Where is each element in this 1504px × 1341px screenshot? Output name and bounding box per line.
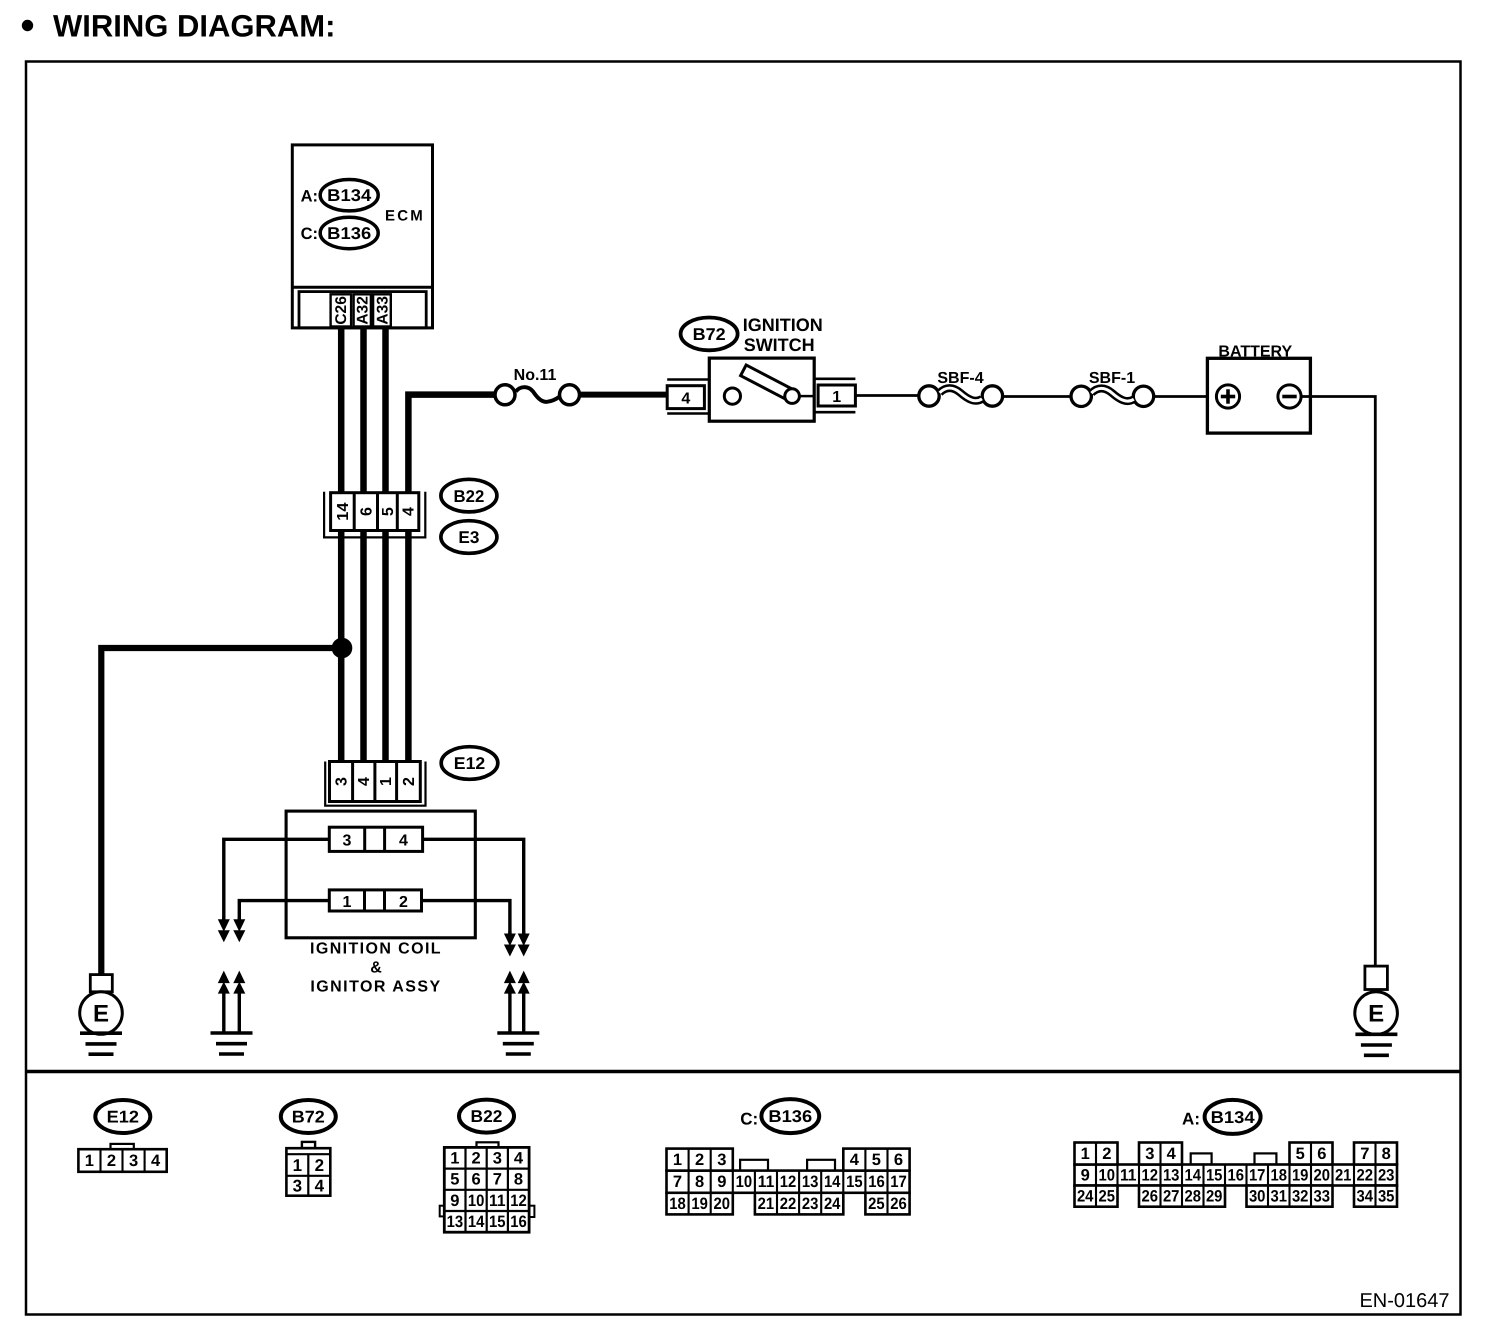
svg-text:26: 26 xyxy=(890,1195,907,1213)
svg-text:11: 11 xyxy=(1120,1167,1137,1185)
svg-text:B134: B134 xyxy=(1211,1108,1256,1127)
svg-text:B22: B22 xyxy=(471,1107,503,1126)
oval E12 (pinout view) xyxy=(95,1100,150,1133)
wire coil pin 4 to ground arrow xyxy=(423,839,524,934)
svg-text:23: 23 xyxy=(1378,1167,1395,1185)
svg-text:9: 9 xyxy=(717,1173,726,1191)
svg-text:10: 10 xyxy=(468,1192,485,1210)
svg-text:28: 28 xyxy=(1185,1188,1202,1206)
svg-text:12: 12 xyxy=(1142,1167,1159,1185)
svg-text:E: E xyxy=(93,1001,109,1028)
wire branch to left ground xyxy=(101,648,344,975)
connector ref oval C:B136 xyxy=(301,217,379,248)
ECM connector strip xyxy=(299,292,426,328)
connector A:B134 pinout xyxy=(1075,1143,1398,1207)
wire ECM C26 to E12 pin 3 xyxy=(338,327,345,764)
wire ignition switch to B22 pin 4 / E12 pin 2 xyxy=(408,395,494,764)
svg-text:4: 4 xyxy=(356,777,373,786)
svg-text:6: 6 xyxy=(472,1171,481,1189)
svg-text:16: 16 xyxy=(868,1173,885,1191)
svg-text:13: 13 xyxy=(1163,1167,1180,1185)
svg-text:9: 9 xyxy=(1081,1167,1090,1185)
svg-text:25: 25 xyxy=(1099,1188,1116,1206)
svg-text:WIRING DIAGRAM:: WIRING DIAGRAM: xyxy=(53,9,335,44)
junction node xyxy=(332,638,353,659)
ignition switch terminal 4 xyxy=(667,380,710,414)
svg-text:19: 19 xyxy=(691,1195,708,1213)
label IGNITION SWITCH xyxy=(743,315,823,355)
svg-text:6: 6 xyxy=(359,507,376,516)
oval B22 (pinout view) xyxy=(459,1100,514,1133)
svg-text:22: 22 xyxy=(780,1195,797,1213)
oval C:B136 (pinout view) xyxy=(740,1099,819,1133)
svg-text:32: 32 xyxy=(1292,1188,1309,1206)
ECM pin A32 xyxy=(354,294,372,326)
svg-text:3: 3 xyxy=(493,1150,502,1168)
svg-text:27: 27 xyxy=(1163,1188,1180,1206)
svg-text:24: 24 xyxy=(1077,1188,1094,1206)
svg-text:1: 1 xyxy=(293,1156,302,1175)
svg-text:E12: E12 xyxy=(454,754,485,773)
svg-text:A32: A32 xyxy=(355,296,372,325)
svg-text:15: 15 xyxy=(489,1213,506,1231)
svg-text:15: 15 xyxy=(1206,1167,1223,1185)
svg-text:B72: B72 xyxy=(693,325,726,344)
wire coil pin 3 to ground arrow xyxy=(224,839,329,920)
svg-text:3: 3 xyxy=(334,777,351,786)
svg-text:30: 30 xyxy=(1249,1188,1266,1206)
svg-text:17: 17 xyxy=(1249,1167,1266,1185)
svg-text:IGNITION COIL: IGNITION COIL xyxy=(310,941,442,958)
connector E12 pinout xyxy=(78,1144,166,1172)
connector B72 pinout xyxy=(286,1142,330,1196)
ground terminal box (left) xyxy=(90,975,112,992)
down arrow (coil pin 1) xyxy=(233,917,245,942)
ignition coil & ignitor assy box xyxy=(286,811,475,995)
svg-text:34: 34 xyxy=(1357,1188,1374,1206)
svg-text:19: 19 xyxy=(1292,1167,1309,1185)
svg-text:2: 2 xyxy=(1102,1145,1111,1163)
svg-text:26: 26 xyxy=(1142,1188,1159,1206)
svg-text:4: 4 xyxy=(151,1152,161,1170)
svg-text:E3: E3 xyxy=(458,528,479,547)
connector E12 pin box xyxy=(330,762,421,802)
svg-text:1: 1 xyxy=(85,1152,94,1170)
svg-text:SWITCH: SWITCH xyxy=(744,335,815,355)
oval A:B134 (pinout view) xyxy=(1182,1100,1261,1134)
svg-text:14: 14 xyxy=(1185,1167,1202,1185)
wire coil pin 2 to ground arrow xyxy=(420,901,510,935)
svg-text:5: 5 xyxy=(450,1171,459,1189)
svg-text:5: 5 xyxy=(380,507,397,516)
svg-text:9: 9 xyxy=(450,1192,459,1210)
svg-text:6: 6 xyxy=(894,1151,903,1169)
svg-text:No.11: No.11 xyxy=(514,367,557,384)
ground E (right) xyxy=(1355,992,1398,1056)
svg-text:16: 16 xyxy=(1228,1167,1245,1185)
svg-text:8: 8 xyxy=(1382,1145,1391,1163)
connector ref oval A:B134 xyxy=(301,180,379,211)
svg-text:18: 18 xyxy=(1271,1167,1288,1185)
oval B72 xyxy=(681,318,738,351)
svg-text:11: 11 xyxy=(489,1192,506,1210)
svg-text:8: 8 xyxy=(514,1171,523,1189)
svg-text:C26: C26 xyxy=(333,296,350,325)
svg-text:10: 10 xyxy=(736,1173,753,1191)
svg-text:4: 4 xyxy=(1167,1145,1177,1163)
svg-text:12: 12 xyxy=(510,1192,527,1210)
up arrows to right coil ground xyxy=(504,971,530,1033)
svg-text:A:: A: xyxy=(301,188,318,206)
svg-text:4: 4 xyxy=(681,390,690,407)
svg-text:4: 4 xyxy=(315,1177,325,1196)
down arrow (coil pin 2) xyxy=(504,932,516,957)
wire coil pin 1 to ground arrow xyxy=(239,901,329,920)
connector B22/E3 bracket xyxy=(324,492,425,538)
svg-text:B134: B134 xyxy=(327,186,372,205)
svg-text:B72: B72 xyxy=(292,1107,325,1126)
fuse SBF-1 xyxy=(1071,370,1154,406)
svg-text:12: 12 xyxy=(780,1173,797,1191)
wire ignition switch to fuse SBF-4 xyxy=(855,394,918,397)
svg-text:4: 4 xyxy=(400,507,417,516)
svg-text:3: 3 xyxy=(129,1152,138,1170)
svg-text:4: 4 xyxy=(514,1150,524,1168)
svg-text:A33: A33 xyxy=(374,296,391,325)
connector E12 bracket xyxy=(325,762,425,806)
svg-text:18: 18 xyxy=(669,1195,686,1213)
svg-text:3: 3 xyxy=(293,1177,302,1196)
svg-text:B136: B136 xyxy=(768,1107,812,1126)
svg-text:C:: C: xyxy=(301,225,318,243)
svg-text:31: 31 xyxy=(1271,1188,1288,1206)
svg-text:E12: E12 xyxy=(107,1107,139,1126)
ground terminal box (right) xyxy=(1365,966,1388,989)
svg-text:A:: A: xyxy=(1182,1109,1200,1128)
svg-text:2: 2 xyxy=(695,1151,704,1169)
svg-text:13: 13 xyxy=(802,1173,819,1191)
svg-text:IGNITOR ASSY: IGNITOR ASSY xyxy=(310,979,441,996)
svg-text:4: 4 xyxy=(399,832,408,849)
ignition switch B72 body xyxy=(709,358,814,421)
svg-text:1: 1 xyxy=(832,389,841,406)
oval E3 xyxy=(441,521,497,554)
svg-text:2: 2 xyxy=(315,1156,324,1175)
svg-text:14: 14 xyxy=(335,502,352,520)
svg-text:2: 2 xyxy=(472,1150,481,1168)
svg-text:3: 3 xyxy=(1145,1145,1154,1163)
svg-text:IGNITION: IGNITION xyxy=(743,315,823,335)
svg-text:29: 29 xyxy=(1206,1188,1223,1206)
svg-text:5: 5 xyxy=(1296,1145,1305,1163)
svg-text:1: 1 xyxy=(1081,1145,1090,1163)
svg-text:17: 17 xyxy=(890,1173,907,1191)
ECM U1 box xyxy=(292,145,432,328)
fuse SBF-4 xyxy=(919,370,1003,406)
svg-text:13: 13 xyxy=(447,1213,464,1231)
svg-text:14: 14 xyxy=(824,1173,841,1191)
svg-text:ECM: ECM xyxy=(385,208,425,225)
ground (coil left) xyxy=(211,1033,253,1054)
svg-text:7: 7 xyxy=(673,1173,682,1191)
svg-text:23: 23 xyxy=(802,1195,819,1213)
svg-text:C:: C: xyxy=(740,1109,758,1128)
svg-text:1: 1 xyxy=(450,1150,459,1168)
svg-text:SBF-1: SBF-1 xyxy=(1089,370,1135,387)
oval B72 (pinout view) xyxy=(281,1100,336,1133)
oval E12 xyxy=(441,747,498,780)
svg-text:14: 14 xyxy=(468,1213,485,1231)
svg-text:B22: B22 xyxy=(454,487,485,506)
svg-text:10: 10 xyxy=(1099,1167,1116,1185)
up arrows to left coil ground xyxy=(218,971,246,1033)
svg-text:B136: B136 xyxy=(327,224,371,243)
down arrow (coil pin 3) xyxy=(218,917,230,942)
svg-text:8: 8 xyxy=(695,1173,704,1191)
svg-text:3: 3 xyxy=(343,832,352,849)
svg-text:25: 25 xyxy=(868,1195,885,1213)
ground (coil right) xyxy=(497,1033,539,1054)
oval B22 xyxy=(441,479,497,512)
svg-text:21: 21 xyxy=(1335,1167,1352,1185)
svg-text:20: 20 xyxy=(1314,1167,1331,1185)
svg-text:20: 20 xyxy=(714,1195,731,1213)
connector C:B136 pinout xyxy=(667,1149,910,1215)
svg-text:EN-01647: EN-01647 xyxy=(1359,1290,1449,1312)
ECM pin C26 xyxy=(331,294,352,326)
svg-text:4: 4 xyxy=(850,1151,860,1169)
fuse No.11 xyxy=(495,367,580,405)
wire ECM A32 to E12 pin 4 xyxy=(360,327,367,764)
svg-text:E: E xyxy=(1368,1001,1384,1028)
svg-text:22: 22 xyxy=(1357,1167,1374,1185)
svg-text:2: 2 xyxy=(401,777,418,786)
coil connector pins 3/4 xyxy=(329,827,422,851)
svg-text:SBF-4: SBF-4 xyxy=(937,370,983,387)
wire SBF-4 to SBF-1 xyxy=(1003,395,1071,398)
svg-text:11: 11 xyxy=(758,1173,775,1191)
wire fuse No.11 to ignition switch pin 4 xyxy=(580,392,667,398)
svg-text:2: 2 xyxy=(399,894,408,911)
connector B22 pinout xyxy=(440,1142,535,1232)
wire battery to right ground xyxy=(1301,397,1375,967)
svg-text:&: & xyxy=(370,960,382,977)
svg-text:16: 16 xyxy=(510,1213,527,1231)
ECM pin A33 xyxy=(373,294,391,326)
svg-text:1: 1 xyxy=(378,777,395,786)
svg-text:2: 2 xyxy=(107,1152,116,1170)
coil connector pins 1/2 xyxy=(329,890,421,911)
svg-text:33: 33 xyxy=(1314,1188,1331,1206)
connector B22/E3 pin box xyxy=(331,493,419,531)
svg-text:3: 3 xyxy=(717,1151,726,1169)
svg-text:24: 24 xyxy=(824,1195,841,1213)
wire ECM A33 to E12 pin 1 xyxy=(382,327,389,764)
svg-text:21: 21 xyxy=(758,1195,775,1213)
svg-text:15: 15 xyxy=(846,1173,863,1191)
ignition switch terminal 1 xyxy=(814,379,855,412)
ground E (left) xyxy=(80,992,123,1054)
svg-text:1: 1 xyxy=(673,1151,682,1169)
svg-text:5: 5 xyxy=(872,1151,881,1169)
svg-text:6: 6 xyxy=(1317,1145,1326,1163)
svg-text:7: 7 xyxy=(493,1171,502,1189)
svg-text:1: 1 xyxy=(343,894,352,911)
wire SBF-1 to battery xyxy=(1154,395,1217,398)
down arrow (coil pin 4) xyxy=(518,932,530,957)
battery xyxy=(1207,344,1310,434)
svg-text:7: 7 xyxy=(1360,1145,1369,1163)
title bullet xyxy=(22,20,33,31)
svg-text:35: 35 xyxy=(1378,1188,1395,1206)
